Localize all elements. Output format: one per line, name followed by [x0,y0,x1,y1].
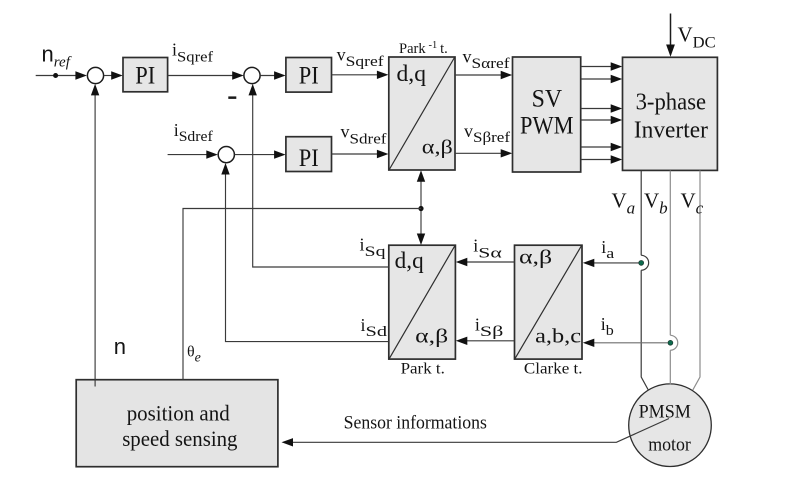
svg-text:vSβref: vSβref [464,121,510,146]
wire iSq feedback Park to S2 [249,84,389,267]
svg-text:Park -1 t.: Park -1 t. [399,40,448,57]
wire n feedback to S1 [91,84,99,387]
svg-text:VDC: VDC [678,23,716,52]
wire theta_e vertical between Park blocks with junction dot [417,170,425,245]
svg-text:vSαref: vSαref [463,47,510,73]
block SV PWM [513,57,581,172]
block PI2 q-current controller [286,58,332,93]
wire VDC input [666,14,675,57]
svg-text:ia: ia [601,237,614,262]
svg-text:vSdref: vSdref [341,122,387,148]
block Park transform [389,245,456,359]
svg-text:Inverter: Inverter [634,117,708,144]
wire sensor informations [282,419,670,447]
svg-text:Park t.: Park t. [401,361,445,378]
current sensor b with wire ib to Clarke [583,339,673,347]
svg-text:d,q: d,q [395,248,425,273]
svg-text:PI: PI [299,145,319,172]
wire inverse Park to SVPWM (vSbeta_ref) [455,149,512,157]
wire S3 to PI3 [235,150,286,158]
svg-text:iSα: iSα [473,236,502,262]
wire phase c from inverter to motor [693,171,700,391]
block Clarke transform [515,245,583,359]
wire Clarke to Park (iSalpha) [456,258,515,266]
svg-text:a,b,c: a,b,c [535,326,581,348]
svg-text:iSqref: iSqref [172,40,213,66]
svg-text:iSdref: iSdref [174,120,213,145]
svg-text:PWM: PWM [520,113,574,140]
block PI3 d-current controller [286,137,332,172]
svg-text:ib: ib [601,314,614,339]
svg-text:motor: motor [648,435,691,456]
svg-text:PI: PI [135,62,155,89]
svg-text:iSq: iSq [360,235,387,261]
svg-text:Sensor informations: Sensor informations [344,414,487,434]
svg-text:α,β: α,β [519,247,552,269]
svg-text:vSqref: vSqref [337,45,384,71]
wire PI3 to inverse Park (vSdref) [332,150,389,158]
wire PI1 to S2 (iSqref) [168,71,244,79]
label minus sign at S2 [228,96,236,99]
wire iSdref input [168,150,218,158]
block PI1 speed controller [123,58,168,92]
wire S1 to PI1 [104,71,123,79]
wire phase a from inverter to motor [641,171,648,391]
svg-text:α,β: α,β [422,137,453,159]
wire nref input with node dot [36,71,87,79]
wire S2 to PI2 [260,71,285,79]
wire PI2 to inverse Park (vSqref) [332,71,389,79]
svg-text:Vb: Vb [644,189,668,218]
block 3-phase inverter [623,57,718,170]
svg-text:SV: SV [532,86,563,113]
svg-text:3-phase: 3-phase [636,89,707,116]
summing junction S2 [244,67,260,83]
wire iSd feedback Park to S3 [221,163,388,342]
block position and speed sensing [76,380,278,467]
svg-text:n: n [114,334,126,359]
svg-text:nref: nref [42,42,72,71]
block inverse Park transform [389,57,455,170]
current sensor a with wire ia to Clarke [583,259,644,267]
svg-text:position and: position and [127,401,230,426]
svg-text:PMSM: PMSM [639,402,691,423]
wires SVPWM to inverter (6 gate signals) [581,62,623,163]
motor PMSM [629,384,712,467]
svg-text:PI: PI [299,62,319,89]
wire inverse Park to SVPWM (vSalpha_ref) [455,71,512,79]
wire Clarke to Park (iSbeta) [456,337,515,345]
summing junction S1 [87,67,103,83]
svg-text:d,q: d,q [397,61,427,86]
wire phase b from inverter to motor [670,171,677,385]
svg-text:α,β: α,β [415,326,448,348]
svg-text:Va: Va [612,189,636,218]
svg-text:iSβ: iSβ [475,315,504,341]
svg-text:speed sensing: speed sensing [122,426,237,451]
svg-text:Clarke t.: Clarke t. [524,361,583,378]
svg-text:iSd: iSd [361,315,388,340]
summing junction S3 [218,147,234,163]
svg-text:θe: θe [187,344,201,366]
wire theta_e to position sensing [183,209,421,380]
